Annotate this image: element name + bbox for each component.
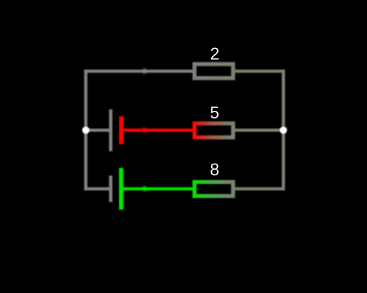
wire: bottom branch (green) from B2 to resistor R8: [121, 187, 193, 190]
resistor value 2 (top): [195, 64, 234, 78]
wire: top rail (left, gray): [84, 70, 193, 73]
wire: left vertical rail: [84, 70, 87, 191]
label: resistor value 5: [211, 107, 219, 119]
label: resistor value 2: [211, 48, 219, 60]
wire: bottom rail (right, sage): [235, 187, 285, 190]
battery B2: short plate (gray, - terminal): [109, 176, 112, 202]
wire: bottom rail (left, gray): [84, 187, 109, 190]
node A (left junction dot): [82, 127, 89, 134]
wire: right vertical rail: [282, 70, 285, 191]
wire: middle stub from node A to battery B1: [86, 129, 109, 132]
wire: middle stub from R5 to node B: [235, 129, 283, 132]
resistor value 5 (middle): [195, 123, 234, 137]
wire: top rail (right, sage): [235, 70, 285, 73]
current arrow: top branch: [143, 68, 148, 74]
battery B2: long plate (green, + terminal): [119, 168, 123, 210]
current arrow: middle branch: [143, 127, 148, 133]
node B (right junction dot): [280, 127, 287, 134]
current arrow: bottom branch: [143, 186, 148, 192]
battery B1: short plate (red, - terminal): [119, 116, 123, 144]
resistor value 8 (bottom): [195, 182, 234, 196]
label: resistor value 8: [211, 163, 219, 175]
wire: middle branch (red) from B1 to resistor R5: [121, 129, 193, 132]
battery B1: long plate (gray, + terminal): [109, 109, 112, 151]
